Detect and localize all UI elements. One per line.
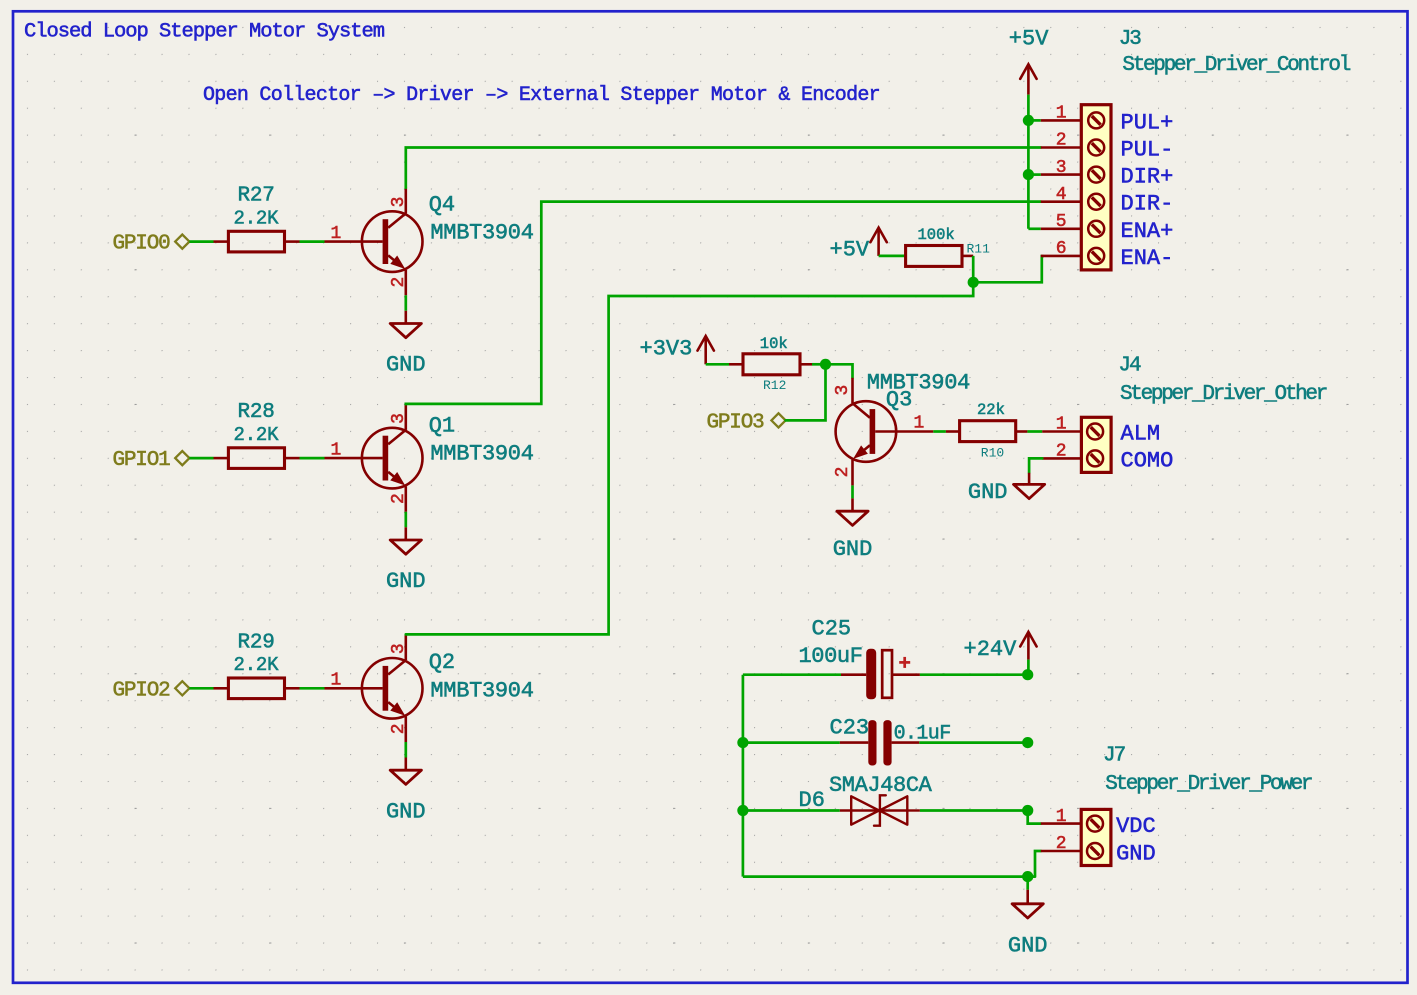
svg-text:GND: GND bbox=[386, 799, 426, 824]
svg-text:GND: GND bbox=[833, 537, 873, 562]
svg-text:4: 4 bbox=[1056, 185, 1067, 205]
svg-text:5: 5 bbox=[1056, 212, 1067, 232]
diode D6 SMAJ48CA bbox=[799, 773, 933, 826]
svg-text:Open Collector –> Driver –> Ex: Open Collector –> Driver –> External Ste… bbox=[203, 84, 880, 107]
label Stepper_Driver_Control bbox=[1122, 54, 1350, 77]
svg-text:1: 1 bbox=[331, 440, 342, 460]
pin name VDC bbox=[1116, 814, 1156, 839]
svg-text:R28: R28 bbox=[238, 401, 275, 424]
svg-text:GPIO3: GPIO3 bbox=[707, 412, 765, 435]
junction J3 pin3 bbox=[1023, 169, 1034, 180]
wire rail to J7 pin1 bbox=[1028, 811, 1041, 824]
svg-text:+5V: +5V bbox=[1009, 27, 1049, 52]
resistor R29 2.2K bbox=[214, 631, 300, 698]
svg-text:MMBT3904: MMBT3904 bbox=[867, 370, 970, 395]
svg-text:R27: R27 bbox=[238, 185, 275, 208]
resistor R28 2.2K bbox=[214, 401, 300, 468]
svg-text:GND: GND bbox=[1008, 934, 1048, 959]
pin name ENA+ bbox=[1121, 219, 1174, 244]
svg-text:1: 1 bbox=[1056, 807, 1067, 827]
ground bottom bbox=[1008, 890, 1048, 959]
svg-text:ENA+: ENA+ bbox=[1121, 219, 1174, 244]
global label GPIO2 bbox=[113, 679, 190, 702]
pin name DIR+ bbox=[1121, 165, 1174, 190]
wire Q1 emitter to ground bbox=[404, 512, 407, 528]
pin name COMO bbox=[1121, 448, 1174, 473]
svg-text:Q4: Q4 bbox=[429, 193, 455, 218]
wire J4 pin2 to ground bbox=[1029, 458, 1042, 472]
wire R11 to ENA- node bbox=[972, 256, 975, 282]
junction +24V/C25 bbox=[1022, 669, 1033, 680]
svg-text:PUL+: PUL+ bbox=[1121, 110, 1174, 135]
svg-text:22k: 22k bbox=[977, 401, 1005, 419]
svg-text:1: 1 bbox=[1056, 415, 1067, 435]
wire D6 left bbox=[743, 809, 840, 812]
wire left bus bbox=[742, 675, 745, 877]
junction C23 left bbox=[737, 737, 748, 748]
wire R12 to node bbox=[812, 363, 826, 366]
svg-text:GND: GND bbox=[386, 353, 426, 378]
svg-text:Stepper_Driver_Other: Stepper_Driver_Other bbox=[1120, 383, 1327, 406]
svg-text:GPIO1: GPIO1 bbox=[113, 449, 171, 472]
wire bottom bus bbox=[743, 875, 1035, 878]
svg-text:Q3: Q3 bbox=[886, 388, 912, 413]
svg-text:1: 1 bbox=[331, 224, 342, 244]
title text bbox=[24, 21, 385, 44]
svg-text:3: 3 bbox=[833, 385, 853, 396]
transistor Q4 MMBT3904 bbox=[325, 188, 534, 296]
svg-text:MMBT3904: MMBT3904 bbox=[430, 679, 533, 704]
svg-text:GPIO2: GPIO2 bbox=[113, 679, 171, 702]
svg-text:3: 3 bbox=[389, 197, 409, 208]
wire Q2 collector to ENA- node bbox=[406, 282, 973, 634]
svg-text:J7: J7 bbox=[1103, 745, 1125, 768]
svg-text:2: 2 bbox=[1056, 442, 1067, 462]
wire +3V3 to R12 bbox=[706, 363, 729, 366]
wire Q4 emitter to ground bbox=[404, 295, 407, 311]
svg-text:2.2K: 2.2K bbox=[234, 654, 280, 676]
wire GPIO1 to R28 bbox=[189, 457, 213, 460]
note text bbox=[203, 84, 880, 107]
pin name GND bbox=[1116, 842, 1156, 867]
svg-text:2: 2 bbox=[833, 467, 853, 478]
svg-text:C25: C25 bbox=[812, 617, 852, 642]
wire GPIO3 to node bbox=[786, 364, 826, 420]
junction J3 pin1 bbox=[1023, 115, 1034, 126]
resistor R12 10k bbox=[729, 335, 812, 393]
svg-text:100k: 100k bbox=[918, 226, 955, 244]
svg-text:2: 2 bbox=[389, 277, 409, 288]
svg-text:2: 2 bbox=[1056, 131, 1067, 151]
svg-text:ENA-: ENA- bbox=[1121, 246, 1174, 271]
svg-text:100uF: 100uF bbox=[799, 644, 863, 669]
svg-text:1: 1 bbox=[331, 671, 342, 691]
junction C23 right bbox=[1022, 737, 1033, 748]
svg-text:GND: GND bbox=[1116, 842, 1156, 867]
svg-text:Closed Loop Stepper Motor Syst: Closed Loop Stepper Motor System bbox=[24, 21, 385, 44]
wire node to Q3 collector bbox=[826, 364, 853, 378]
svg-text:SMAJ48CA: SMAJ48CA bbox=[829, 773, 933, 798]
svg-text:Q1: Q1 bbox=[429, 414, 455, 439]
svg-text:MMBT3904: MMBT3904 bbox=[430, 220, 533, 245]
global label GPIO0 bbox=[113, 233, 190, 256]
svg-text:2: 2 bbox=[1056, 834, 1067, 854]
svg-text:J3: J3 bbox=[1119, 28, 1142, 51]
svg-text:+5V: +5V bbox=[830, 237, 870, 262]
wire +5V to R11 bbox=[879, 255, 906, 258]
ground below Q2 bbox=[386, 758, 426, 825]
wire R29 to Q2 base bbox=[300, 687, 325, 690]
connector J4 Stepper_Driver_Other bbox=[1042, 415, 1111, 473]
svg-text:3: 3 bbox=[389, 643, 409, 654]
svg-text:2: 2 bbox=[389, 723, 409, 734]
svg-text:R11: R11 bbox=[967, 241, 991, 256]
pin name ALM bbox=[1121, 422, 1161, 447]
svg-text:1: 1 bbox=[914, 414, 925, 434]
svg-text:GND: GND bbox=[968, 480, 1008, 505]
wire C25 left bbox=[743, 673, 841, 676]
power symbol +3V3 bbox=[640, 336, 714, 364]
wire C23 right bbox=[919, 741, 1027, 744]
svg-text:R12: R12 bbox=[763, 378, 786, 393]
svg-text:GPIO0: GPIO0 bbox=[113, 233, 171, 256]
wire +24V to rail bbox=[1027, 660, 1030, 675]
wire R27 to Q4 base bbox=[300, 240, 325, 243]
svg-text:R10: R10 bbox=[981, 445, 1004, 460]
power symbol +5V (R11) bbox=[830, 228, 887, 263]
svg-text:Q2: Q2 bbox=[429, 650, 455, 675]
pin name DIR- bbox=[1121, 192, 1174, 217]
capacitor C23 0.1uF bbox=[830, 715, 951, 765]
junction bottom/GND bbox=[1022, 871, 1033, 882]
transistor Q2 MMBT3904 bbox=[325, 634, 534, 742]
junction D6 right bbox=[1022, 805, 1033, 816]
transistor Q3 MMBT3904 bbox=[833, 370, 970, 485]
capacitor C25 100uF bbox=[799, 617, 920, 700]
wire GPIO2 to R29 bbox=[189, 687, 213, 690]
transistor Q1 MMBT3904 bbox=[325, 404, 534, 512]
svg-text:10k: 10k bbox=[760, 335, 788, 353]
wire R10 to J4 pin1 bbox=[1027, 430, 1042, 433]
wire GND lead bbox=[1026, 877, 1029, 890]
svg-text:DIR-: DIR- bbox=[1121, 192, 1174, 217]
ground below J4 bbox=[968, 473, 1045, 505]
power symbol +24V bbox=[964, 632, 1037, 662]
pin name PUL- bbox=[1121, 138, 1174, 163]
wire C23 left bbox=[743, 741, 840, 744]
junction ENA- node bbox=[968, 277, 979, 288]
svg-text:R29: R29 bbox=[238, 631, 275, 654]
resistor R10 22k bbox=[946, 401, 1028, 460]
svg-text:3: 3 bbox=[1056, 158, 1067, 178]
svg-text:VDC: VDC bbox=[1116, 814, 1156, 839]
pin name ENA- bbox=[1121, 246, 1174, 271]
svg-text:2.2K: 2.2K bbox=[234, 424, 280, 446]
wire J7 pin2 to bus bbox=[1035, 851, 1041, 877]
global label GPIO1 bbox=[113, 449, 190, 472]
connector J7 Stepper_Driver_Power bbox=[1041, 807, 1111, 866]
svg-text:2: 2 bbox=[389, 493, 409, 504]
svg-text:2.2K: 2.2K bbox=[234, 207, 280, 229]
svg-text:3: 3 bbox=[389, 413, 409, 424]
label J7 bbox=[1103, 745, 1125, 768]
svg-text:6: 6 bbox=[1056, 239, 1067, 259]
label J3 bbox=[1119, 28, 1142, 51]
svg-text:C23: C23 bbox=[830, 715, 870, 740]
ground below Q4 bbox=[386, 311, 426, 378]
wire Q3 emitter to ground bbox=[851, 485, 854, 498]
wire C25 right bbox=[920, 673, 1028, 676]
label Stepper_Driver_Other bbox=[1120, 383, 1327, 406]
ground below Q3 bbox=[833, 498, 873, 562]
wire GPIO0 to R27 bbox=[189, 240, 213, 243]
svg-text:PUL-: PUL- bbox=[1121, 138, 1174, 163]
svg-text:1: 1 bbox=[1056, 104, 1067, 124]
resistor R27 2.2K bbox=[214, 185, 300, 252]
svg-text:MMBT3904: MMBT3904 bbox=[430, 441, 533, 466]
svg-text:GND: GND bbox=[386, 569, 426, 594]
svg-text:DIR+: DIR+ bbox=[1121, 165, 1174, 190]
label Stepper_Driver_Power bbox=[1105, 773, 1312, 796]
junction D6 left bbox=[737, 805, 748, 816]
svg-text:+24V: +24V bbox=[964, 637, 1018, 662]
svg-text:Stepper_Driver_Control: Stepper_Driver_Control bbox=[1122, 54, 1350, 77]
svg-text:+3V3: +3V3 bbox=[640, 337, 693, 362]
connector J3 Stepper_Driver_Control bbox=[1041, 104, 1111, 270]
ground below Q1 bbox=[386, 527, 426, 594]
svg-text:ALM: ALM bbox=[1121, 422, 1161, 447]
power symbol +5V (J3) bbox=[1009, 27, 1049, 95]
svg-text:Stepper_Driver_Power: Stepper_Driver_Power bbox=[1105, 773, 1312, 796]
junction R12/Q3 node bbox=[820, 359, 831, 370]
wire Q1 collector to J3 pin4 DIR- bbox=[406, 202, 1041, 405]
global label GPIO3 bbox=[707, 412, 786, 435]
wire R28 to Q1 base bbox=[300, 457, 325, 460]
wire Q4 collector to J3 pin2 PUL- bbox=[406, 148, 1041, 188]
wire D6 right bbox=[920, 809, 1028, 812]
wire Q3 base to R10 bbox=[933, 430, 946, 433]
wire +5V rail bbox=[1028, 95, 1040, 229]
svg-text:J4: J4 bbox=[1118, 355, 1141, 378]
wire Q2 emitter to ground bbox=[404, 742, 407, 758]
pin name PUL+ bbox=[1121, 110, 1174, 135]
svg-text:COMO: COMO bbox=[1121, 448, 1174, 473]
label J4 bbox=[1118, 355, 1141, 378]
resistor R11 100k bbox=[906, 226, 991, 266]
wire node to J3 pin6 ENA- bbox=[973, 256, 1043, 282]
